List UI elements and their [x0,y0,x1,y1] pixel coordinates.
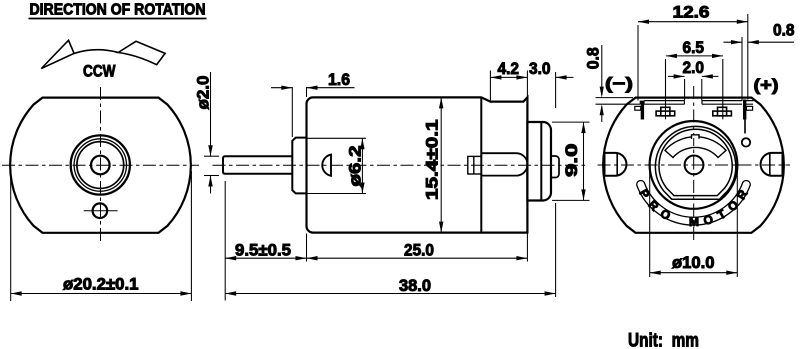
hub outer outline with flat bottom [655,126,735,199]
dimension 1.6 line and arrows [271,87,292,89]
rear shaft hole [685,156,704,175]
top arc slot [665,137,726,158]
dimension 2.0 ext lines [684,79,686,101]
shaft side view [223,156,292,173]
bearing boss ring 2 [74,139,126,191]
PRO MOTOR letters [636,187,750,229]
left view centerline horizontal [2,164,199,166]
svg-text:0.8: 0.8 [585,47,603,69]
terminal plus hook [746,106,752,110]
svg-text:Unit: mm: Unit: mm [628,330,699,349]
left side notch capsule [605,153,627,176]
terminal minus hook [635,106,641,110]
dimension ø2.0 ext ticks [204,155,219,157]
svg-text:ø6.2: ø6.2 [347,146,365,187]
dimension 12.6 ext lines [637,25,639,101]
rear cap rim band upper line [644,100,753,102]
can seam line [480,97,482,232]
small hole top right [742,138,750,146]
svg-text:12.6: 12.6 [673,3,710,21]
svg-text:1.6: 1.6 [328,71,350,89]
dimension 38.0 line and arrows [225,293,555,295]
middle view centerline [213,164,586,166]
svg-text:2.0: 2.0 [683,59,705,77]
dimension 25/3/38 ext line at can face [306,234,308,262]
svg-text:DIRECTION OF ROTATION: DIRECTION OF ROTATION [30,2,206,19]
rotation arrow arc [74,50,118,54]
dimension ø6.2 ext lines [307,137,366,139]
dimension 1.6 ext lines [291,87,293,137]
shaft D-hole [322,155,331,176]
terminal plus bar [743,100,746,120]
bearing boss ring 3 [77,142,124,189]
dimension 3.0 right ext line upper [555,72,557,108]
svg-text:(+): (+) [754,76,779,95]
dimension 9.0 line and arrows [583,122,585,200]
bearing boss side view [292,138,306,194]
dimension 0.8 right arrows [724,41,743,43]
dimension 3.0 arrow [556,76,574,78]
rear cap rim band lower line [596,103,754,105]
dimension 9.5±0.5 line and arrows [225,257,306,259]
dimension ø20.2 line [11,293,192,295]
motor can outline [307,97,528,232]
dimension 12.6 line and arrows [638,21,748,23]
svg-text:ø2.0: ø2.0 [195,76,213,110]
rivet left base bar [656,111,675,116]
svg-text:ø10.0: ø10.0 [672,254,715,272]
rotation arrow left head [41,40,74,68]
rear view centerline horizontal [598,164,791,166]
dimension 6.5 line and arrows [666,55,723,57]
svg-text:(−): (−) [605,74,633,93]
PRO MOTOR band [637,181,751,225]
vent hole [93,203,108,218]
dimension 9.0 ext lines [552,121,590,123]
rivet right base bar [713,111,732,116]
dimension 9.5/38 left ext line [224,181,226,301]
bearing boss outer circle [71,135,130,194]
dimension ø2.0 line and arrows [210,72,212,156]
rear shaft stub [468,156,482,174]
dimension ø10 line and arrows [650,272,738,274]
rear bearing capsule [481,153,527,175]
dimension ø6.2 line and arrows [361,138,363,193]
svg-text:38.0: 38.0 [399,277,431,295]
dimension ø20.2 ext lines [10,171,12,301]
svg-text:9.5±0.5: 9.5±0.5 [235,242,291,260]
end cap outline [527,122,551,201]
svg-text:9.0: 9.0 [563,144,581,178]
dimension 0.8 left arrows [601,45,603,95]
end cap inner line [540,122,542,200]
arc slot top notch [692,135,699,139]
rivet right top box [718,107,727,116]
svg-text:15.4±0.1: 15.4±0.1 [424,120,442,201]
dimension 4.2 line and arrows [490,76,527,78]
svg-text:25.0: 25.0 [404,242,434,260]
vent hole center tick [84,210,118,212]
rear body outline [603,98,784,233]
svg-text:ø20.2±0.1: ø20.2±0.1 [63,275,139,293]
dimension 25.0 line and arrows [307,257,528,259]
svg-text:CCW: CCW [83,61,116,80]
hub inner outline [659,129,732,195]
svg-text:0.8: 0.8 [773,22,795,40]
rivet left top box [661,107,670,116]
motor body outline front view [10,98,191,233]
big circle ø10 [650,121,738,209]
dimension 0.8 left ext lines [596,97,634,99]
rotation arrow right tail flag [118,41,165,64]
terminal minus bar [641,101,644,120]
rear view centerline vertical [693,86,695,244]
svg-text:4.2: 4.2 [498,60,520,78]
shaft circle front [91,156,110,175]
terminal plus tail [744,120,746,134]
rear bearing bump [551,156,559,178]
dimension 4.2 ext lines [489,71,491,102]
dimension 15.4±0.1 line and arrows [440,97,442,232]
dimension 2.0 arrows outside [668,75,685,77]
dimension ø10 ext lines [649,171,651,277]
right side notch capsule [761,153,783,176]
svg-text:6.5: 6.5 [683,39,705,57]
rivet stem left / 6.5 ext [665,59,667,119]
rim band step verticals [640,101,702,105]
left view centerline vertical [100,87,102,243]
dimension 0.8 right ext line [741,37,743,101]
dimension 38 right ext line lower [555,203,557,297]
svg-text:3.0: 3.0 [529,60,551,78]
rivet stem right / 6.5 ext [722,59,724,119]
svg-text:M: M [689,215,699,229]
